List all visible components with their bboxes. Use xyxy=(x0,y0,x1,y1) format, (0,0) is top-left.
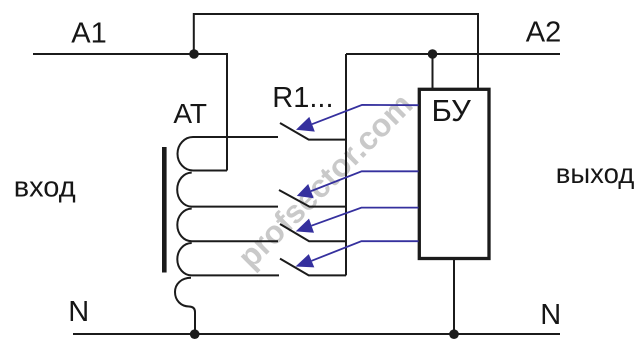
svg-text:A1: A1 xyxy=(71,18,106,50)
svg-text:A2: A2 xyxy=(526,16,561,48)
svg-text:N: N xyxy=(68,296,89,328)
svg-text:вход: вход xyxy=(14,172,76,204)
svg-text:выход: выход xyxy=(556,158,635,189)
svg-text:БУ: БУ xyxy=(432,93,472,128)
svg-text:R1...: R1... xyxy=(272,82,333,114)
svg-text:АТ: АТ xyxy=(173,98,207,129)
svg-text:N: N xyxy=(540,299,561,331)
